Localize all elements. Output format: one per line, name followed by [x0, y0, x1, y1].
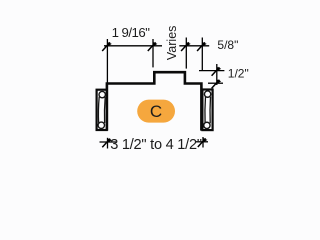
- svg-text:1 9/16": 1 9/16": [112, 25, 151, 40]
- svg-text:3 1/2" to 4 1/2": 3 1/2" to 4 1/2": [110, 137, 202, 153]
- svg-text:C: C: [150, 102, 162, 121]
- svg-text:5/8": 5/8": [217, 38, 238, 52]
- svg-text:1/2": 1/2": [228, 66, 249, 80]
- svg-text:Varies: Varies: [165, 26, 179, 61]
